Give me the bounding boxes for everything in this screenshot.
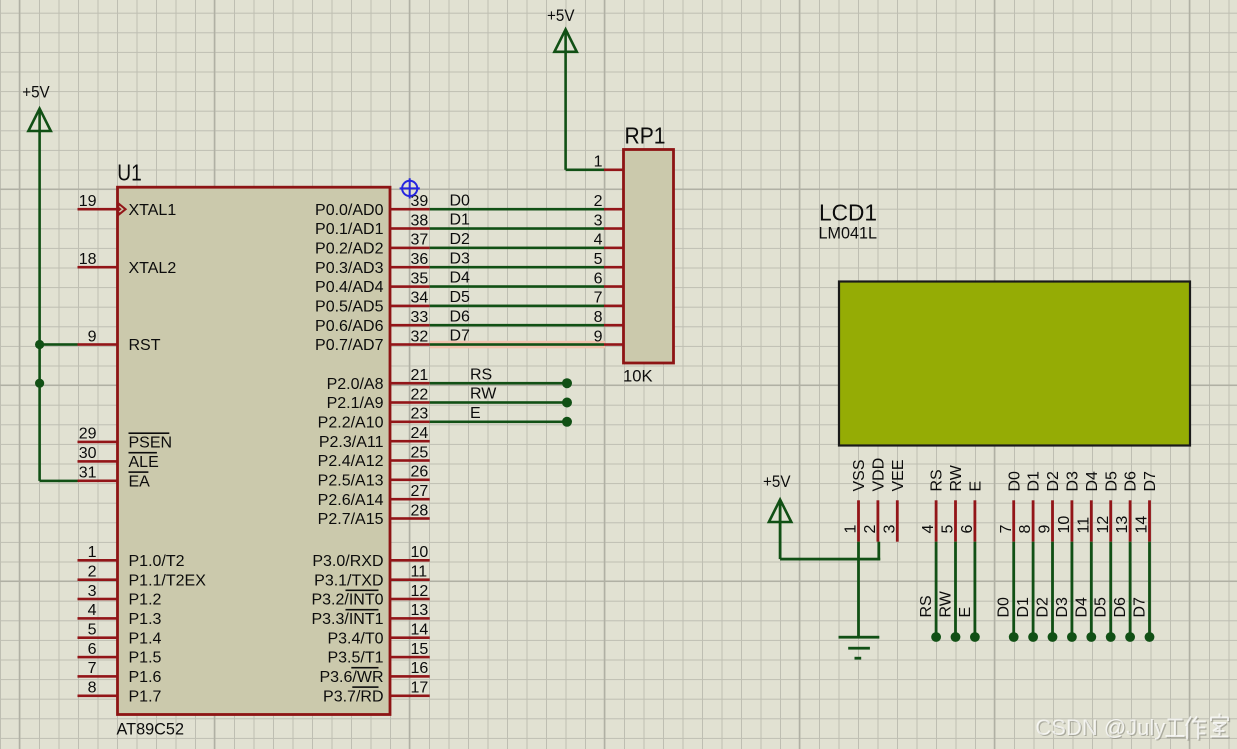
- svg-text:RW: RW: [938, 590, 955, 617]
- svg-text:P1.4: P1.4: [129, 630, 162, 647]
- svg-text:P2.4/A12: P2.4/A12: [318, 453, 384, 470]
- pin 17 P3.7/RD: [390, 695, 430, 698]
- svg-text:5: 5: [940, 525, 957, 534]
- svg-text:D1: D1: [1015, 597, 1032, 618]
- pin 33 P0.6/AD6: [390, 324, 430, 327]
- svg-text:D5: D5: [1093, 597, 1110, 618]
- pin 10 P3.0/RXD: [390, 559, 430, 562]
- svg-text:14: 14: [411, 622, 429, 639]
- svg-text:30: 30: [79, 445, 97, 462]
- svg-text:D1: D1: [450, 212, 471, 229]
- pin 5 RP1: [604, 266, 624, 269]
- svg-text:D1: D1: [1026, 471, 1043, 492]
- svg-text:P2.0/A8: P2.0/A8: [327, 376, 384, 393]
- svg-text:D6: D6: [1112, 597, 1129, 618]
- svg-text:2: 2: [88, 564, 97, 581]
- wire RS net: [430, 382, 567, 385]
- svg-text:P3.3/INT1: P3.3/INT1: [311, 611, 383, 628]
- wire +5V to VDD: [780, 558, 880, 561]
- watermark CSDN @July工作室: [1035, 715, 1166, 741]
- svg-text:P0.3/AD3: P0.3/AD3: [315, 260, 384, 277]
- svg-text:P0.5/AD5: P0.5/AD5: [315, 299, 384, 316]
- wire to RST: [40, 343, 78, 346]
- pin 38 P0.1/AD1: [390, 227, 430, 230]
- pin 31 EA: [78, 480, 118, 483]
- svg-text:12: 12: [1095, 516, 1112, 534]
- svg-text:31: 31: [79, 465, 97, 482]
- svg-text:PSEN: PSEN: [129, 435, 173, 452]
- wire +5V to RP1 pin1: [566, 169, 604, 172]
- svg-text:24: 24: [411, 425, 429, 442]
- wire lcd D5 drop: [1109, 542, 1112, 637]
- pin 13 P3.3/INT1: [390, 617, 430, 620]
- svg-text:18: 18: [79, 251, 97, 268]
- clock marker on XTAL1: [118, 202, 127, 217]
- svg-text:P3.5/T1: P3.5/T1: [327, 650, 383, 667]
- pin 34 P0.5/AD5: [390, 305, 430, 308]
- pin 26 P2.5/A13: [390, 479, 430, 482]
- svg-text:RW: RW: [470, 386, 497, 403]
- pin 2 P1.1/T2EX: [78, 578, 118, 581]
- wire lcd E drop: [974, 542, 977, 637]
- origin marker (blue crosshair): [400, 178, 420, 198]
- svg-text:10: 10: [1056, 516, 1073, 534]
- svg-text:P0.6/AD6: P0.6/AD6: [315, 318, 384, 335]
- svg-text:P3.7/RD: P3.7/RD: [323, 688, 383, 705]
- pin 32 P0.7/AD7: [390, 343, 430, 346]
- wire D1 net: [430, 227, 604, 230]
- svg-text:E: E: [968, 481, 985, 492]
- wire lcd RS drop: [935, 542, 938, 637]
- pin 23 P2.2/A10: [390, 421, 430, 424]
- svg-text:P1.7: P1.7: [129, 688, 162, 705]
- svg-text:23: 23: [411, 406, 429, 423]
- pin 35 P0.4/AD4: [390, 285, 430, 288]
- svg-text:VDD: VDD: [871, 458, 888, 492]
- svg-text:+5V: +5V: [547, 6, 575, 25]
- wire VDD jog: [877, 542, 880, 561]
- pin 7 P1.6: [78, 675, 118, 678]
- svg-text:12: 12: [411, 583, 429, 600]
- svg-text:CSDN @July: CSDN @July: [1035, 715, 1165, 740]
- pin 12 P3.2/INT0: [390, 598, 430, 601]
- svg-text:4: 4: [88, 602, 97, 619]
- junction at RST branch: [35, 340, 44, 349]
- wire D3 net: [430, 266, 604, 269]
- svg-text:7: 7: [998, 525, 1015, 534]
- svg-text:RS: RS: [929, 469, 946, 491]
- svg-text:33: 33: [411, 309, 429, 326]
- svg-text:P2.5/A13: P2.5/A13: [318, 472, 384, 489]
- svg-text:D2: D2: [1035, 597, 1052, 618]
- pin 14 P3.4/T0: [390, 636, 430, 639]
- wire lcd D7 drop: [1148, 542, 1151, 637]
- svg-text:1: 1: [594, 154, 603, 171]
- svg-text:D5: D5: [450, 289, 471, 306]
- svg-text:11: 11: [411, 564, 428, 581]
- wire E net: [430, 421, 567, 424]
- svg-text:36: 36: [411, 251, 429, 268]
- svg-text:VSS: VSS: [851, 459, 868, 491]
- pin 6 P1.5: [78, 656, 118, 659]
- svg-text:10K: 10K: [623, 367, 653, 386]
- svg-text:RW: RW: [948, 464, 965, 491]
- pin 21 P2.0/A8: [390, 382, 430, 385]
- pin 1 RP1: [604, 169, 624, 172]
- pin 5 P1.4: [78, 636, 118, 639]
- svg-text:10: 10: [411, 544, 429, 561]
- svg-text:P1.2: P1.2: [129, 592, 162, 609]
- svg-text:6: 6: [88, 641, 97, 658]
- svg-text:3: 3: [594, 212, 603, 229]
- pin 19 XTAL1: [78, 208, 118, 211]
- pin 3 P1.2: [78, 598, 118, 601]
- pin 1 P1.0/T2: [78, 559, 118, 562]
- svg-text:38: 38: [411, 212, 429, 229]
- svg-text:9: 9: [1037, 525, 1054, 534]
- svg-text:1: 1: [88, 544, 97, 561]
- svg-text:3: 3: [88, 583, 97, 600]
- svg-text:14: 14: [1134, 516, 1151, 534]
- svg-text:34: 34: [411, 290, 429, 307]
- svg-text:1: 1: [843, 525, 860, 534]
- wire D2 net: [430, 247, 604, 250]
- svg-text:2: 2: [862, 525, 879, 534]
- svg-text:RS: RS: [918, 595, 935, 617]
- svg-text:P2.2/A10: P2.2/A10: [318, 414, 384, 431]
- svg-text:ALE: ALE: [129, 454, 159, 471]
- svg-text:P1.0/T2: P1.0/T2: [129, 553, 185, 570]
- svg-text:P2.6/A14: P2.6/A14: [318, 492, 384, 509]
- pin 9 RP1: [604, 343, 624, 346]
- svg-text:4: 4: [920, 525, 937, 534]
- svg-text:P3.4/T0: P3.4/T0: [327, 630, 383, 647]
- svg-text:D3: D3: [1054, 597, 1071, 618]
- svg-text:8: 8: [594, 309, 603, 326]
- svg-text:D6: D6: [1123, 471, 1140, 492]
- wire D7 net: [430, 341, 605, 349]
- ground: [839, 636, 880, 639]
- svg-text:22: 22: [411, 386, 429, 403]
- svg-text:+5V: +5V: [22, 83, 50, 102]
- svg-text:D7: D7: [1142, 471, 1159, 492]
- svg-text:VEE: VEE: [890, 459, 907, 491]
- svg-text:+5V: +5V: [763, 472, 791, 491]
- wire lcd D4 drop: [1090, 542, 1093, 637]
- svg-text:P3.2/INT0: P3.2/INT0: [311, 592, 383, 609]
- svg-text:RP1: RP1: [625, 122, 666, 148]
- wire VSS to ground: [857, 542, 860, 637]
- lcd LCD1 screen body: [839, 282, 1190, 446]
- wire lcd D0 drop: [1012, 542, 1015, 637]
- wire D6 net: [430, 324, 604, 327]
- svg-text:D4: D4: [1084, 471, 1101, 492]
- svg-text:32: 32: [411, 328, 429, 345]
- svg-text:XTAL1: XTAL1: [129, 202, 177, 219]
- wire lcd D6 drop: [1129, 542, 1132, 637]
- svg-text:7: 7: [88, 660, 97, 677]
- svg-text:15: 15: [411, 641, 429, 658]
- wire lcd D2 drop: [1051, 542, 1054, 637]
- svg-text:D4: D4: [450, 270, 471, 287]
- svg-text:D4: D4: [1073, 597, 1090, 618]
- svg-text:19: 19: [79, 193, 97, 210]
- svg-text:LCD1: LCD1: [819, 199, 877, 225]
- pin 30 ALE: [78, 460, 118, 463]
- pin 3 RP1: [604, 227, 624, 230]
- svg-text:35: 35: [411, 270, 429, 287]
- svg-text:3: 3: [881, 525, 898, 534]
- mcu U1 AT89C52 body: [118, 187, 391, 714]
- svg-text:P3.6/WR: P3.6/WR: [319, 669, 383, 686]
- svg-text:D3: D3: [450, 250, 471, 267]
- svg-text:P1.6: P1.6: [129, 669, 162, 686]
- svg-text:D0: D0: [996, 597, 1013, 618]
- pin 11 P3.1/TXD: [390, 578, 430, 581]
- svg-text:37: 37: [411, 232, 429, 249]
- pin 4 RP1: [604, 247, 624, 250]
- pin 6 RP1: [604, 285, 624, 288]
- svg-text:D5: D5: [1103, 471, 1120, 492]
- svg-text:29: 29: [79, 426, 97, 443]
- wire D5 net: [430, 305, 604, 308]
- svg-text:D2: D2: [1045, 471, 1062, 492]
- svg-text:6: 6: [959, 525, 976, 534]
- svg-text:E: E: [470, 405, 481, 422]
- svg-text:13: 13: [411, 602, 429, 619]
- wire D4 net: [430, 285, 604, 288]
- svg-text:13: 13: [1114, 516, 1131, 534]
- wire D0 net: [430, 208, 604, 211]
- pin 22 P2.1/A9: [390, 401, 430, 404]
- svg-text:D3: D3: [1065, 471, 1082, 492]
- pin 37 P0.2/AD2: [390, 247, 430, 250]
- pin 7 RP1: [604, 305, 624, 308]
- svg-text:4: 4: [594, 232, 603, 249]
- pin 36 P0.3/AD3: [390, 266, 430, 269]
- svg-text:27: 27: [411, 483, 429, 500]
- junction on +5V rail: [35, 379, 44, 388]
- svg-text:11: 11: [1075, 517, 1092, 534]
- pin 29 PSEN: [78, 441, 118, 444]
- wire RW net: [430, 401, 567, 404]
- svg-text:28: 28: [411, 502, 429, 519]
- svg-text:5: 5: [594, 251, 603, 268]
- pin 8 P1.7: [78, 695, 118, 698]
- svg-text:RST: RST: [129, 337, 161, 354]
- svg-text:21: 21: [411, 367, 429, 384]
- svg-text:P1.3: P1.3: [129, 611, 162, 628]
- wire lcd D3 drop: [1071, 542, 1074, 637]
- svg-text:D7: D7: [1132, 597, 1149, 618]
- svg-text:P0.0/AD0: P0.0/AD0: [315, 202, 384, 219]
- svg-text:D2: D2: [450, 231, 471, 248]
- svg-text:P0.2/AD2: P0.2/AD2: [315, 241, 384, 258]
- svg-text:25: 25: [411, 444, 429, 461]
- svg-text:9: 9: [88, 328, 97, 345]
- svg-text:6: 6: [594, 270, 603, 287]
- svg-text:EA: EA: [129, 473, 151, 490]
- svg-text:17: 17: [411, 680, 429, 697]
- wire to EA: [40, 480, 78, 483]
- svg-text:D7: D7: [450, 328, 471, 345]
- pin 2 RP1: [604, 208, 624, 211]
- pin 9 RST: [78, 343, 118, 346]
- svg-text:P2.1/A9: P2.1/A9: [327, 395, 384, 412]
- svg-text:XTAL2: XTAL2: [129, 260, 177, 277]
- svg-text:E: E: [957, 607, 974, 618]
- wire lcd D1 drop: [1032, 542, 1035, 637]
- pin 8 RP1: [604, 324, 624, 327]
- pin 16 P3.6/WR: [390, 675, 430, 678]
- svg-text:9: 9: [594, 328, 603, 345]
- svg-text:P0.4/AD4: P0.4/AD4: [315, 279, 384, 296]
- pin 28 P2.7/A15: [390, 517, 430, 520]
- svg-text:AT89C52: AT89C52: [117, 720, 185, 739]
- pin 27 P2.6/A14: [390, 498, 430, 501]
- pin 25 P2.4/A12: [390, 459, 430, 462]
- pin 24 P2.3/A11: [390, 440, 430, 443]
- svg-text:LM041L: LM041L: [819, 224, 878, 243]
- svg-text:P3.0/RXD: P3.0/RXD: [312, 553, 383, 570]
- wire lcd RW drop: [954, 542, 957, 637]
- svg-text:P0.1/AD1: P0.1/AD1: [315, 221, 384, 238]
- svg-text:P0.7/AD7: P0.7/AD7: [315, 337, 384, 354]
- pin 15 P3.5/T1: [390, 656, 430, 659]
- svg-text:D6: D6: [450, 308, 471, 325]
- svg-text:26: 26: [411, 464, 429, 481]
- pin 39 P0.0/AD0: [390, 208, 430, 211]
- pin 4 P1.3: [78, 617, 118, 620]
- svg-text:U1: U1: [117, 160, 142, 186]
- svg-text:8: 8: [88, 680, 97, 697]
- resistor pack RP1 body: [624, 150, 674, 364]
- svg-text:8: 8: [1017, 525, 1034, 534]
- svg-text:P1.1/T2EX: P1.1/T2EX: [129, 572, 207, 589]
- svg-text:2: 2: [594, 193, 603, 210]
- svg-text:16: 16: [411, 660, 429, 677]
- pin 18 XTAL2: [78, 266, 118, 269]
- svg-text:D0: D0: [1006, 471, 1023, 492]
- wire +5V rail lower segment: [38, 345, 41, 481]
- svg-text:D0: D0: [450, 192, 471, 209]
- svg-text:P1.5: P1.5: [129, 650, 162, 667]
- svg-text:5: 5: [88, 622, 97, 639]
- svg-text:P2.7/A15: P2.7/A15: [318, 511, 384, 528]
- svg-text:RS: RS: [470, 366, 492, 383]
- svg-text:P3.1/TXD: P3.1/TXD: [314, 572, 383, 589]
- svg-text:7: 7: [594, 290, 603, 307]
- svg-text:P2.3/A11: P2.3/A11: [319, 434, 384, 451]
